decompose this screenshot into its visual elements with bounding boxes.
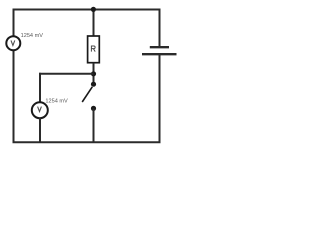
wire below switch [93,108,95,142]
wire branch horizontal [39,73,94,75]
wire left [13,10,15,143]
voltmeter V2 [32,102,48,118]
switch S1 upper contact [91,82,96,87]
wire right upper [159,10,161,47]
wire branch vertical upper [39,73,41,102]
voltmeter V1 [6,36,20,50]
wire top [13,9,161,11]
wire bottom [13,141,161,143]
wire right lower [159,54,161,142]
switch S1 lower contact [91,106,96,111]
node junction top [91,7,96,12]
resistor R [88,36,100,63]
wire middle branch upper [93,10,95,37]
node junction below resistor [91,71,96,76]
svg-text:1254 mV: 1254 mV [21,33,44,39]
svg-text:1254 mV: 1254 mV [45,99,68,105]
wire branch vertical lower [39,118,41,142]
switch S1 lever [82,87,92,102]
wire below resistor [93,63,95,85]
battery B1 long plate [142,53,177,55]
battery B1 short plate [150,46,169,48]
